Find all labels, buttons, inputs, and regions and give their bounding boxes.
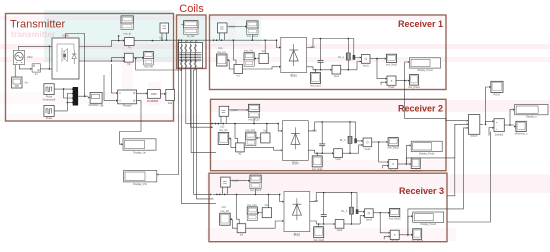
svg-text:Vs2: Vs2 — [263, 129, 268, 132]
display Display_Pout3 — [413, 212, 444, 222]
block Vso3 — [335, 220, 344, 229]
wire Is2 to rectifier in2 — [244, 147, 280, 150]
wire down to Display_Iin — [120, 132, 122, 145]
svg-text:rms_Pout3: rms_Pout3 — [411, 240, 423, 243]
svg-text:RL_3: RL_3 — [341, 210, 347, 213]
scope rms_VCs1 — [247, 21, 258, 28]
divide block Divide2 — [494, 119, 504, 132]
series capacitor block Cp — [160, 23, 169, 33]
svg-text:Vso2: Vso2 — [335, 158, 341, 161]
wire Power3 out2 down (Pin) — [120, 101, 142, 132]
Receiver 1 section box — [210, 15, 447, 90]
mutual inductance block L-M — [178, 43, 203, 69]
svg-text:Receiver 1: Receiver 1 — [398, 19, 443, 29]
Transmitter section box — [6, 14, 174, 122]
wire Is2 to rms_Is2 — [231, 138, 236, 147]
wire POUT sum to scope and divide — [480, 124, 484, 126]
wire node up to rms_Ip — [118, 37, 120, 41]
svg-text:×: × — [391, 79, 393, 83]
current block Is3 — [237, 224, 246, 233]
scope rms_Vout1 — [386, 54, 396, 62]
svg-text:Cs1: Cs1 — [218, 47, 223, 50]
long wire coil3 to receiver3 — [194, 67, 210, 195]
svg-text:rms_Pout1: rms_Pout1 — [408, 86, 420, 89]
svg-text:rms_Vs3: rms_Vs3 — [247, 204, 257, 207]
svg-text:Coils: Coils — [179, 3, 204, 15]
product block Pout2 — [389, 159, 398, 168]
svg-text:Display_Pin: Display_Pin — [133, 182, 147, 186]
svg-text:Generator5: Generator5 — [43, 98, 56, 101]
wire Vout3 out — [373, 212, 387, 214]
long wire coil2c to receiver2 lower — [191, 70, 216, 153]
wire node down to Vs3 — [267, 194, 269, 207]
rectifier output top wire — [310, 193, 363, 212]
block Vso2 — [334, 149, 343, 158]
display MOSFET gate — [90, 92, 102, 103]
wire Divide2 out — [504, 124, 510, 126]
capacitor block I_Cs3 — [221, 177, 231, 187]
rectifier output bottom wire — [307, 67, 330, 70]
wire node down to Vs1 — [264, 40, 266, 53]
wire Power3 to RMS — [137, 92, 146, 94]
scope rms_Iout3 — [318, 224, 320, 227]
svg-text:550: 550 — [15, 84, 20, 88]
Coils section box — [177, 15, 207, 69]
wire Ip out east — [134, 40, 160, 42]
pulse generator 6 — [44, 106, 54, 117]
diode rectifier U2 — [283, 121, 309, 161]
receiver 1: input wire — [210, 39, 277, 41]
filter capacitor C2 branch — [321, 122, 323, 144]
svg-text:rms_VCs1: rms_VCs1 — [247, 35, 259, 38]
current measure block Ip — [125, 38, 135, 46]
scope rms_Vp — [144, 52, 154, 59]
svg-text:rms_Iout3: rms_Iout3 — [313, 239, 324, 242]
svg-text:Pulse: Pulse — [46, 117, 53, 120]
Receiver 3 section box — [209, 173, 447, 242]
svg-text:Divide2: Divide2 — [495, 133, 504, 136]
rectifier output top wire — [308, 122, 361, 141]
svg-text:Display_Pout1: Display_Pout1 — [417, 69, 433, 72]
RMS block — [148, 90, 161, 99]
power block Power3 — [118, 90, 137, 104]
svg-text:Display_Iin: Display_Iin — [133, 151, 146, 155]
long wire coil1 to receiver3 lower — [181, 70, 216, 204]
diode rectifier U1 — [281, 37, 307, 72]
svg-text:Power3: Power3 — [123, 105, 132, 108]
svg-text:Display_Pout3: Display_Pout3 — [420, 223, 436, 226]
scope rms_Iout1 — [315, 70, 317, 73]
wire Vso1 to RL node — [341, 69, 349, 71]
svg-text:rms_Ip: rms_Ip — [123, 33, 131, 36]
svg-text:220V: 220V — [27, 56, 33, 59]
voltage block Vout2 — [363, 138, 372, 147]
svg-text:Vs1: Vs1 — [261, 50, 266, 53]
transmitter primary return wire — [136, 59, 182, 71]
scope rms_VCs3 — [250, 175, 261, 182]
scope Ve_M — [184, 21, 199, 28]
svg-text:11 RMS2: 11 RMS2 — [147, 99, 159, 103]
receiver 2: input wire — [211, 123, 278, 125]
svg-text:Cs2: Cs2 — [220, 125, 225, 128]
wire node to Is2 — [235, 124, 238, 143]
svg-text:rms_Pout2: rms_Pout2 — [410, 169, 422, 172]
wire right-side vertical run A — [447, 124, 455, 196]
wire Pout2 to POUT sum — [406, 124, 466, 164]
wire node to Is3 — [237, 194, 240, 223]
gate wire up to bridge — [66, 34, 85, 97]
Receiver 2 section box — [211, 99, 447, 170]
scope rms_VCs2 — [248, 104, 259, 111]
product block Pout3 — [390, 230, 399, 239]
wire node to Is1 — [233, 40, 236, 64]
svg-text:rms_Vout2: rms_Vout2 — [387, 147, 399, 150]
svg-text:I_Cs1: I_Cs1 — [229, 26, 236, 29]
wire I_Cs2 to rms scope — [229, 109, 247, 111]
wire right-side vertical run B (Pin to Divide2) — [447, 132, 490, 223]
svg-text:整流1: 整流1 — [290, 73, 297, 77]
winding top stubs — [186, 41, 188, 43]
receiver 3: input wire — [213, 193, 280, 195]
wire node down to Vs2 — [266, 124, 268, 133]
svg-text:Vout1: Vout1 — [363, 65, 370, 68]
wire main to rectifier — [280, 194, 282, 201]
rectifier output bottom wire — [308, 150, 331, 153]
wire main to rectifier — [278, 124, 280, 131]
wire Pout3 to POUT sum — [411, 128, 466, 209]
svg-text:RL_1: RL_1 — [338, 56, 344, 59]
display block Display_Iin — [123, 139, 156, 150]
display block Display_Pin — [124, 171, 157, 182]
svg-text:Pout1: Pout1 — [388, 86, 395, 89]
wires into Power3 — [111, 64, 115, 93]
wire to Display_Pin — [159, 40, 179, 174]
svg-text:Cs3: Cs3 — [222, 206, 227, 209]
wires pulse gens to mux — [54, 88, 72, 90]
svg-text:efficiency_o: efficiency_o — [515, 132, 528, 135]
wire Pout1 out to displays — [396, 80, 407, 82]
wire source top to bridge — [19, 46, 50, 50]
Cp stubs to main line — [161, 33, 163, 40]
wire Pin into Divide2 — [489, 128, 492, 136]
wire Vso3 to RL node — [344, 223, 352, 225]
svg-text:POUT: POUT — [494, 93, 501, 96]
svg-text:transmitter: transmitter — [11, 29, 56, 39]
svg-text:整流2: 整流2 — [292, 161, 299, 165]
long wire coil3b to receiver3 return — [196, 68, 213, 199]
long wire coil2 to receiver2 — [186, 70, 212, 124]
scope rms_Pout3 — [413, 229, 422, 240]
svg-text:rms_Vs1: rms_Vs1 — [244, 50, 254, 53]
product block Pout1 — [387, 76, 396, 85]
main line through coils — [160, 39, 210, 41]
scope rms_Vout3 — [390, 208, 400, 216]
svg-text:整流3: 整流3 — [294, 232, 301, 236]
filter capacitor C1 branch — [320, 39, 322, 61]
svg-text:Vs3: Vs3 — [265, 204, 270, 207]
svg-text:Vout3: Vout3 — [366, 219, 373, 222]
display Display_Pout1 — [410, 58, 441, 68]
svg-text:Receiver 3: Receiver 3 — [399, 186, 444, 196]
wire RMS to Asd — [160, 93, 163, 95]
scope efficiency_o — [516, 121, 526, 131]
wire I_Cs3 to rms scope — [230, 180, 248, 182]
IGBT full-bridge U1 — [52, 38, 79, 79]
block Vso1 — [332, 65, 341, 74]
mux output to gate node — [78, 95, 88, 97]
wire source bottom to current meas — [19, 65, 30, 69]
svg-text:rms_Vout1: rms_Vout1 — [386, 63, 398, 66]
diode rectifier U3 — [284, 192, 310, 232]
voltage block Vout3 — [365, 209, 374, 218]
scope POUT — [491, 81, 503, 92]
current measurement block tri — [32, 64, 40, 72]
svg-text:Ve_M2: Ve_M2 — [187, 35, 195, 38]
svg-text:Display_Pout2: Display_Pout2 — [419, 152, 435, 155]
svg-text:rms_Vout3: rms_Vout3 — [389, 218, 401, 221]
svg-text:rms_Is1: rms_Is1 — [217, 51, 226, 54]
vertical link at node x49 — [48, 46, 50, 69]
goto block Asd — [166, 90, 175, 101]
wire main to rectifier — [277, 40, 279, 47]
AC voltage source V1 — [13, 50, 24, 64]
display Vin 550 — [14, 65, 16, 77]
long wire coil2b to receiver2 return — [191, 70, 211, 128]
display Display_o — [515, 105, 548, 115]
scope rms_Pout1 — [410, 75, 419, 86]
capacitor block I_Cs1 — [218, 23, 228, 33]
current block Is2 — [236, 143, 245, 152]
svg-text:×: × — [392, 162, 394, 166]
pulse generator 5 — [44, 84, 54, 95]
wire Vp to rms_Vp — [133, 57, 141, 59]
svg-text:Display_o: Display_o — [526, 116, 537, 119]
svg-text:rms_Vs2: rms_Vs2 — [245, 129, 255, 132]
capacitor block I_Cs2 — [219, 106, 229, 116]
svg-text:×: × — [394, 233, 396, 237]
current block Is1 — [234, 65, 243, 74]
svg-text:Vout2: Vout2 — [364, 148, 371, 151]
wire Vs2 to rms_Vs2 — [258, 137, 261, 139]
stub rms_VCs1 to wire — [251, 35, 253, 41]
svg-text:rms_VCs3: rms_VCs3 — [250, 189, 262, 192]
wire Is3 to rectifier in2 — [246, 221, 282, 228]
svg-text:Vso3: Vso3 — [337, 229, 343, 232]
svg-text:Pout3: Pout3 — [392, 240, 399, 243]
svg-text:Vso1: Vso1 — [334, 75, 340, 78]
svg-text:rms_Iout1: rms_Iout1 — [310, 85, 321, 88]
wire Vout2 out — [372, 141, 386, 143]
svg-text:I_Cs2: I_Cs2 — [230, 109, 237, 112]
wire bridge out1 to Ip — [79, 41, 122, 47]
display Display_Pout2 — [411, 141, 442, 151]
voltage measure block Vp — [125, 53, 134, 62]
svg-text:RMS: RMS — [151, 92, 157, 96]
wire down to product Pout3 — [380, 213, 388, 233]
wire down to product Pout2 — [379, 142, 387, 162]
wire Pout2 out to displays — [398, 163, 409, 165]
wire Is3 to rms_Is3 — [232, 219, 237, 228]
sum block POUT — [468, 115, 479, 135]
svg-text:I_Cs3: I_Cs3 — [232, 180, 239, 183]
scope rms_Iout2 — [316, 153, 318, 156]
wire Vs3 to rms_Vs3 — [260, 212, 263, 214]
wire Vs1 to rms_Vs1 — [256, 58, 259, 60]
winding bottom exit wires — [180, 67, 182, 70]
scope rms_Pout2 — [411, 158, 420, 169]
wire Vout1 out — [370, 58, 384, 60]
svg-text:Pout2: Pout2 — [390, 169, 397, 172]
wire Vso2 to RL node — [342, 152, 350, 154]
filter capacitor C3 branch — [323, 193, 325, 215]
wire down to product Pout1 — [377, 59, 385, 79]
svg-text:rms_VCs2: rms_VCs2 — [248, 118, 260, 121]
stub rms_VCs2 to wire — [253, 118, 255, 124]
scope rms_Vout2 — [388, 138, 398, 146]
wire Is1 to rectifier in2 — [243, 67, 279, 69]
svg-text:MOSFET门极: MOSFET门极 — [89, 103, 104, 107]
wire Pout1 to POUT sum — [405, 81, 467, 121]
svg-text:rms_Vp: rms_Vp — [144, 66, 153, 69]
wire Pout3 out to displays — [399, 234, 410, 236]
svg-text:Asd: Asd — [168, 102, 173, 105]
svg-text:rms_Iout2: rms_Iout2 — [312, 168, 323, 171]
rectifier output bottom wire — [310, 221, 333, 224]
wire I_Cs1 to rms scope — [227, 26, 245, 28]
voltage block Vout1 — [361, 55, 370, 64]
mux M1 — [73, 87, 78, 106]
svg-text:rms_Is3: rms_Is3 — [220, 210, 229, 213]
wire tri to bridge bottom — [40, 68, 49, 70]
wire bridge out2 to Vp — [79, 60, 122, 62]
wire Is1 to rms_Is1 — [229, 60, 234, 69]
stub rms_VCs3 to wire — [255, 189, 257, 195]
svg-text:RL_2: RL_2 — [340, 139, 346, 142]
svg-text:POUT: POUT — [471, 135, 478, 138]
Ve_M tap wire — [180, 40, 182, 42]
scope rms_Ip — [121, 16, 133, 23]
svg-text:rms_Is2: rms_Is2 — [219, 129, 228, 132]
rectifier output top wire — [307, 39, 360, 58]
